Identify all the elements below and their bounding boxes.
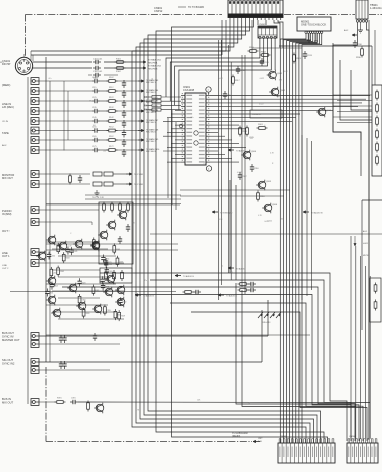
svg-text:Q905: Q905	[266, 181, 272, 183]
svg-text:C353: C353	[49, 292, 53, 294]
jack row J3	[31, 98, 158, 108]
loop parts b	[238, 288, 257, 292]
svg-text:C135: C135	[92, 107, 97, 109]
resistor R171	[69, 174, 83, 185]
svg-text:LINE: LINE	[2, 265, 7, 267]
connector CNA (to main)	[278, 436, 335, 463]
wire CNB feed 4	[364, 266, 366, 439]
svg-text:(MAIN): (MAIN)	[232, 434, 240, 438]
label edge extra2	[2, 121, 8, 123]
jack row J4	[31, 108, 158, 118]
resistor R916	[257, 191, 265, 202]
wire vertical x219	[218, 40, 220, 300]
wire vertical x375 upper	[374, 30, 376, 85]
wire h y190	[180, 189, 290, 191]
wires CN902 fan to driver rows	[166, 39, 275, 110]
svg-text:MIX OUT: MIX OUT	[2, 176, 13, 180]
op-amp/controller IC901	[181, 85, 210, 165]
wire vertical x221	[220, 40, 222, 285]
transistor Q902	[269, 87, 286, 98]
svg-text:R333: R333	[85, 313, 89, 315]
svg-text:TO P CN1: TO P CN1	[134, 174, 144, 176]
to a board arrow	[232, 431, 263, 443]
wire din stub a	[31, 51, 33, 61]
wire long y55	[31, 20, 222, 55]
transistor Q903	[316, 107, 332, 118]
jack b1	[31, 300, 268, 343]
wire CN903 pin2	[360, 22, 362, 28]
svg-text:C105: C105	[92, 77, 97, 79]
label b34	[2, 358, 15, 365]
svg-text:BUS IN: BUS IN	[2, 397, 11, 401]
svg-text:0.022: 0.022	[268, 221, 273, 223]
wire vertical left of IC b	[167, 118, 169, 198]
capacitor C912	[236, 66, 246, 74]
transistor Q310	[51, 308, 61, 319]
jack row J2	[31, 88, 158, 98]
svg-text:CN902: CN902	[259, 24, 266, 26]
transistor Q314	[115, 297, 125, 308]
wire CN901 pin 9 down	[257, 20, 259, 25]
svg-text:R172: R172	[109, 146, 114, 148]
svg-text:C115: C115	[92, 87, 96, 89]
svg-text:C360: C360	[122, 301, 126, 303]
label parts row J4	[92, 107, 114, 109]
wire h y48	[252, 47, 302, 49]
wire vertical right edge	[368, 20, 370, 440]
jack row mix2	[31, 219, 92, 226]
svg-text:Q902: Q902	[280, 90, 286, 92]
svg-text:100: 100	[230, 272, 233, 274]
svg-text:R343: R343	[65, 258, 69, 260]
capacitor C913	[303, 51, 313, 59]
wire vertical x245	[244, 55, 246, 294]
svg-text:TO AUDIO B: TO AUDIO B	[183, 275, 195, 278]
wire bus y250	[46, 249, 178, 251]
svg-text:TO AUDIO B: TO AUDIO B	[226, 295, 238, 298]
svg-text:CN?: CN?	[258, 438, 263, 440]
diode array D310	[258, 312, 281, 324]
box right lower	[362, 200, 382, 330]
transistor Q302	[73, 239, 83, 250]
loop parts a	[238, 280, 257, 286]
wire bus y203	[46, 203, 181, 205]
resistor R202	[111, 202, 114, 213]
svg-text:REC SEL 8: REC SEL 8	[146, 151, 156, 153]
wire h y205	[46, 204, 180, 206]
jack row J5	[31, 118, 158, 128]
label CN901	[154, 6, 204, 13]
svg-text:0.022: 0.022	[276, 96, 281, 98]
wire vertical x252	[251, 20, 253, 110]
svg-text:D310-313: D310-313	[262, 322, 270, 324]
svg-text:CNP12: CNP12	[154, 9, 163, 13]
svg-text:REC SEL 5: REC SEL 5	[146, 122, 156, 124]
wire bus y195	[85, 194, 181, 196]
wire CN901 pin 11 down	[265, 20, 267, 25]
svg-text:REC SEL 1: REC SEL 1	[146, 82, 156, 84]
chassis chain line bottom-left vertical	[45, 367, 47, 442]
wire bus y199	[85, 197, 181, 199]
label edge extra5	[2, 265, 9, 270]
wire loop row 3	[62, 287, 355, 441]
svg-text:R916: R916	[260, 196, 265, 198]
wires to driver rows	[146, 97, 149, 110]
wire vertical left of IC c	[175, 122, 177, 210]
box sub-circuit	[250, 110, 282, 118]
svg-text:100: 100	[281, 218, 284, 220]
arrow TO row1	[140, 59, 162, 65]
svg-text:REC SEL 7: REC SEL 7	[146, 141, 156, 143]
svg-text:C363: C363	[81, 300, 85, 302]
wire loop row 6	[191, 312, 367, 441]
test point TP2	[206, 165, 211, 171]
label right col a	[363, 230, 367, 233]
transistor Q204	[90, 240, 100, 251]
svg-text:C320: C320	[108, 271, 112, 273]
label edge extra3	[2, 144, 7, 147]
capacitor C102	[93, 66, 103, 73]
transistor Q307	[46, 295, 56, 306]
svg-text:TO P CN1: TO P CN1	[134, 184, 144, 186]
svg-text:R329: R329	[121, 316, 125, 318]
box right edge sub-circuit	[372, 85, 382, 176]
svg-text:C916: C916	[254, 168, 259, 170]
svg-text:R162: R162	[109, 136, 114, 138]
jack row J1	[31, 78, 158, 88]
wire vertical x231	[230, 62, 232, 280]
wire loop row 4	[135, 295, 359, 442]
transistor Q905	[256, 180, 272, 191]
svg-text:REC/PB A: REC/PB A	[148, 61, 158, 64]
box right lower2	[370, 278, 381, 322]
transistor Q311	[105, 274, 115, 285]
wire vertical x311	[311, 141, 313, 290]
label to tx board wire	[178, 6, 186, 8]
svg-text:C165: C165	[92, 136, 97, 138]
transistor Q308	[76, 301, 86, 312]
svg-text:R314: R314	[54, 286, 58, 288]
svg-text:C102 0.01: C102 0.01	[93, 71, 103, 73]
svg-text:AU-1: AU-1	[363, 230, 367, 233]
transistor Q304	[36, 251, 46, 262]
svg-text:SYNC IN!: SYNC IN!	[2, 334, 14, 338]
capacitor C103	[88, 73, 118, 80]
svg-text:Q904: Q904	[251, 151, 257, 153]
resistor R101	[115, 58, 126, 63]
svg-text:OUT 2: OUT 2	[2, 268, 9, 270]
svg-text:C101 0.01: C101 0.01	[93, 58, 103, 60]
label right col b	[363, 243, 368, 245]
svg-text:OUT 1: OUT 1	[2, 254, 10, 258]
wires IC901 right bus	[210, 96, 370, 122]
svg-text:H-011: H-011	[363, 243, 368, 245]
wire CN903 pin4	[367, 22, 370, 440]
wire bus y244	[46, 243, 178, 245]
chassis chain line left vertical	[25, 15, 27, 58]
wire vertical x228	[228, 45, 230, 273]
wire right L3	[351, 70, 372, 110]
vertical from IC bottom b	[235, 185, 237, 280]
transistor Q309	[92, 304, 102, 315]
wire bottom L b	[242, 290, 356, 407]
svg-text:CD IN: CD IN	[2, 121, 8, 123]
svg-text:0.022: 0.022	[259, 104, 264, 106]
label edge extra1	[0, 62, 5, 64]
svg-text:TO MAIN CN1: TO MAIN CN1	[148, 59, 162, 62]
svg-text:0.022: 0.022	[218, 78, 223, 80]
svg-text:TO MAIN CN2: TO MAIN CN2	[148, 65, 162, 68]
svg-text:C917: C917	[242, 176, 247, 178]
svg-text:(RED): (RED)	[2, 83, 10, 87]
svg-text:TO B BOARD: TO B BOARD	[220, 212, 233, 215]
arrow TO row2	[140, 65, 162, 71]
svg-text:AGC: AGC	[344, 29, 349, 32]
svg-text:R142: R142	[109, 117, 114, 119]
node circle IC left	[179, 124, 183, 128]
monitor row 1	[31, 171, 144, 178]
jack row tape out1	[31, 249, 46, 256]
wire bus loop 6 (CN901 pin to CNA)	[156, 20, 324, 443]
label CN101	[2, 59, 11, 87]
label tape out	[2, 251, 10, 258]
transistor Q306	[67, 283, 77, 294]
svg-text:47u: 47u	[190, 117, 193, 119]
arrow label loop3	[135, 294, 155, 298]
svg-text:C175: C175	[92, 146, 97, 148]
svg-text:TO AUDIO: TO AUDIO	[236, 150, 246, 153]
transistor Q904	[241, 150, 257, 161]
svg-text:CN906: CN906	[349, 436, 357, 438]
capacitor C201	[126, 224, 130, 232]
svg-text:OUT !: OUT !	[2, 229, 10, 233]
wire CNB feed 2	[355, 246, 357, 439]
label parts row J8	[92, 146, 114, 148]
svg-text:C918: C918	[227, 95, 232, 97]
transistor Q906	[262, 203, 278, 214]
transistor Q305	[46, 276, 56, 287]
wire left bus x28	[27, 77, 29, 404]
resistor R201	[103, 202, 106, 213]
wire left bus x50	[49, 81, 51, 362]
test point TP1	[206, 87, 211, 95]
svg-text:TO AUDIO B: TO AUDIO B	[311, 212, 323, 215]
svg-text:R152: R152	[109, 127, 114, 129]
wire DIN row1	[33, 61, 140, 63]
ground CN903	[358, 28, 363, 33]
wire right L1	[333, 43, 361, 176]
capacitor C202	[118, 236, 122, 244]
svg-text:R132: R132	[109, 107, 114, 109]
label edge extra4	[2, 229, 10, 233]
one-touch block MD901	[297, 17, 331, 33]
svg-text:100: 100	[103, 150, 106, 152]
svg-text:47u: 47u	[144, 280, 147, 282]
wire h y196	[180, 195, 284, 197]
label group2	[2, 131, 9, 135]
wire long y51	[31, 20, 226, 51]
wire CN901 pin 13 down	[274, 20, 280, 48]
svg-text:47u: 47u	[250, 138, 253, 140]
svg-text:C391: C391	[71, 398, 76, 400]
resistor R917	[232, 75, 240, 86]
transistor Q312	[115, 285, 125, 296]
capacitor C918	[223, 91, 232, 99]
jack b3	[31, 310, 262, 369]
svg-text:TO TX BOARD: TO TX BOARD	[188, 6, 204, 9]
wire vertical x242	[241, 55, 243, 287]
svg-text:1-463-011: 1-463-011	[370, 6, 382, 10]
wire DIN row2	[33, 67, 140, 69]
transistor Q901	[267, 70, 283, 81]
svg-text:CN905: CN905	[280, 436, 288, 438]
jack row J7	[31, 137, 158, 147]
vertical from IC bottom a	[229, 180, 231, 273]
svg-text:R365: R365	[60, 271, 64, 273]
arrow label right a	[303, 211, 323, 215]
svg-text:R917: R917	[235, 80, 240, 82]
resistor R203	[119, 202, 122, 213]
svg-text:REC SEL 2: REC SEL 2	[146, 92, 156, 94]
svg-text:R391: R391	[57, 398, 62, 400]
jack row J8	[31, 147, 159, 157]
transistor Q301	[57, 241, 67, 252]
monitor row 2	[31, 181, 144, 188]
jack b4	[31, 367, 110, 374]
svg-text:Q903: Q903	[326, 110, 332, 112]
wire bus loop 5 (CN901 pin to CNA)	[148, 20, 321, 443]
arrow label loop2	[228, 267, 246, 271]
node circle inside IC a	[194, 131, 198, 135]
label mix jacks	[2, 209, 12, 216]
resistor R930	[356, 47, 363, 60]
capacitor C916	[250, 164, 259, 172]
svg-text:R102: R102	[109, 77, 114, 79]
label parts row J3	[92, 97, 114, 99]
wire bus y335	[46, 334, 310, 336]
wire vertical left of IC a	[171, 110, 173, 205]
transistor Q201	[117, 210, 127, 221]
svg-text:REC SEL 3: REC SEL 3	[146, 102, 156, 104]
svg-text:BUS OUT: BUS OUT	[2, 331, 14, 335]
svg-text:0.022: 0.022	[260, 78, 265, 80]
wire bottom L a	[236, 283, 351, 404]
svg-text:C350: C350	[51, 255, 55, 257]
arrow label right b	[344, 29, 357, 36]
label b5	[2, 397, 14, 404]
resistor R913	[293, 53, 302, 64]
cluster passives	[45, 237, 126, 321]
wire loop row 5	[170, 303, 363, 441]
transistor Q203	[98, 230, 108, 241]
svg-text:Q901: Q901	[277, 73, 283, 75]
wire CN901 pin 14 down	[278, 20, 283, 48]
svg-text:IN (MM): IN (MM)	[2, 212, 11, 216]
label parts row J1	[92, 77, 114, 79]
resistor R914	[239, 126, 248, 137]
svg-text:C346: C346	[108, 264, 112, 266]
svg-text:100: 100	[93, 125, 96, 127]
transistor Q202	[106, 220, 116, 231]
svg-text:TO AUDIO: TO AUDIO	[236, 268, 246, 271]
resistor R911	[248, 47, 259, 52]
node circle inside IC b	[194, 141, 198, 145]
svg-text:MUTE: MUTE	[363, 255, 369, 257]
box bias	[100, 268, 132, 283]
arrow right col	[354, 236, 356, 246]
jack row tape out2	[31, 260, 46, 267]
connector CNB	[347, 436, 378, 463]
svg-text:SIG OUT: SIG OUT	[2, 358, 13, 362]
jack row mix1	[31, 207, 99, 214]
label right col c	[363, 255, 369, 257]
svg-text:REC/PB B: REC/PB B	[148, 68, 158, 70]
jack b5	[31, 399, 370, 412]
svg-text:0.022: 0.022	[237, 172, 242, 174]
wires IC901 left short	[163, 110, 181, 162]
wire bus y234	[150, 233, 382, 235]
wires IC901 right short	[210, 125, 246, 162]
capacitor C930	[353, 40, 363, 48]
svg-text:4X: 4X	[144, 97, 147, 99]
wire loop row 1	[100, 273, 347, 441]
label b12	[2, 331, 20, 342]
svg-text:MIX OUT: MIX OUT	[2, 400, 14, 404]
arrow label loop1	[175, 274, 195, 278]
resistor ladder right edge	[376, 90, 379, 166]
wire CNB feed 3	[360, 256, 362, 439]
connector CN903	[356, 0, 382, 22]
wire right L2	[340, 60, 372, 120]
wires MD901 to CNA bus	[280, 33, 321, 443]
DIN connector CN101	[15, 54, 32, 75]
svg-text:REC SEL 4: REC SEL 4	[146, 112, 156, 114]
svg-text:Q906: Q906	[272, 204, 278, 206]
svg-text:C145: C145	[92, 117, 97, 119]
capacitor C101	[93, 58, 103, 64]
svg-text:TB 2.2K 2.2K: TB 2.2K 2.2K	[92, 197, 105, 199]
svg-text:C125: C125	[92, 97, 97, 99]
svg-text:C353: C353	[105, 259, 109, 261]
parts b5	[57, 398, 104, 414]
svg-text:ONE-TOUCH BLOCK: ONE-TOUCH BLOCK	[301, 23, 326, 27]
svg-text:REC SEL 6: REC SEL 6	[146, 132, 156, 134]
svg-text:L/R (REC): L/R (REC)	[2, 105, 14, 109]
cluster wires	[46, 242, 124, 319]
svg-text:C326: C326	[69, 251, 73, 253]
resistor R204	[127, 202, 130, 213]
svg-text:TO AUDIO B: TO AUDIO B	[143, 295, 155, 298]
label parts row J7	[92, 136, 114, 138]
diode D901	[257, 124, 268, 129]
svg-text:MASTER OUT: MASTER OUT	[2, 338, 20, 342]
svg-text:47u: 47u	[94, 245, 97, 247]
wire left bus x46	[45, 57, 47, 362]
ground MD901 b	[314, 34, 318, 44]
wire bus loop 4 (CN901 pin to CNA)	[144, 20, 317, 443]
svg-text:C355: C355	[106, 310, 110, 312]
wire bus loop 2 (CN901 pin to CNA)	[136, 20, 310, 443]
svg-text:47u: 47u	[48, 78, 51, 80]
svg-text:AUX: AUX	[2, 144, 7, 147]
label group1	[2, 102, 14, 109]
resistor R912	[260, 51, 271, 56]
connector CN901 (to sub board)	[228, 0, 283, 20]
chassis ground chain line top	[26, 14, 382, 16]
wire bus loop 3 (CN901 pin to CNA)	[140, 20, 314, 443]
transistor Q303	[90, 241, 100, 252]
wire left bus x68	[67, 91, 69, 140]
